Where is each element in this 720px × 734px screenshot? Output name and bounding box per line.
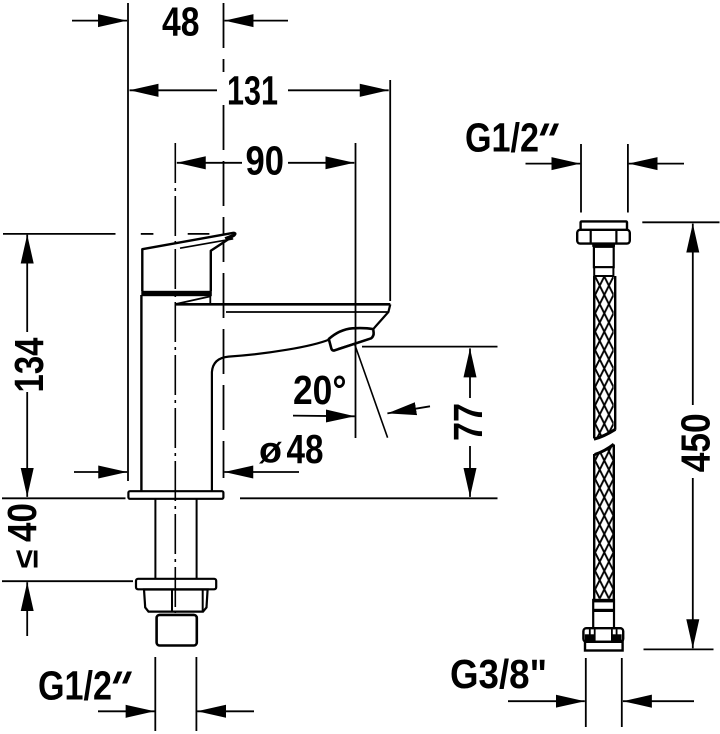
lever tip fill	[225, 233, 237, 242]
label G1/2 (faucet shank)	[38, 663, 132, 709]
svg-text:G1/2: G1/2	[38, 663, 112, 709]
svg-text:48: 48	[287, 426, 324, 472]
dimension 450	[673, 224, 719, 649]
svg-text:≤: ≤	[8, 550, 46, 569]
angle 20 deg line	[354, 342, 388, 438]
dimension G3/8: arrows	[508, 700, 585, 702]
threaded shank sides	[154, 499, 156, 579]
aerator face line	[338, 339, 370, 349]
projection lines shank	[154, 657, 156, 731]
extension line hose bottom (y=649)	[644, 648, 714, 650]
cartridge cap shoulder	[175, 296, 211, 304]
riser left edge	[140, 295, 142, 491]
hose upper edges	[593, 276, 595, 438]
spout deck right edge + chamfer	[373, 304, 390, 329]
svg-text:77: 77	[445, 403, 491, 441]
hose nipple	[594, 247, 614, 267]
lever bottom gap (black bar)	[141, 291, 212, 296]
tail pipe	[157, 615, 197, 646]
extension line spout end (x=390)	[389, 80, 391, 301]
svg-text:G3/8": G3/8"	[450, 651, 547, 697]
svg-text:131: 131	[227, 68, 278, 114]
projection lines G3/8	[585, 658, 587, 727]
dimension G1/2 hose nut: arrows	[526, 163, 581, 165]
lever inner edge line	[180, 239, 233, 248]
hose lower braid	[595, 447, 613, 599]
under-nut lip	[592, 244, 615, 247]
dimension G1/2 shank: arrows	[98, 710, 155, 712]
svg-text:450: 450	[673, 413, 719, 472]
svg-text:134: 134	[6, 337, 52, 392]
svg-text:ø: ø	[259, 430, 282, 471]
mounting plane line (y=498)	[2, 497, 126, 499]
hose ferrule bands	[593, 599, 614, 603]
dimension 134	[6, 235, 52, 497]
label G1/2 (hose top)	[465, 115, 559, 161]
dimension 131	[130, 68, 389, 114]
dimension 77	[445, 348, 491, 497]
hose break lower cut	[595, 444, 614, 454]
svg-text:20°: 20°	[293, 367, 347, 413]
centerline of faucet body (dash-dot)	[174, 143, 176, 613]
hose break upper cut	[594, 429, 616, 439]
hose top cap	[581, 221, 627, 230]
hose nipple groove	[594, 267, 613, 276]
hose lower edges	[593, 454, 595, 600]
base flange	[128, 491, 223, 499]
svg-text:90: 90	[246, 138, 285, 184]
extension line outlet level (y=346.6)	[362, 346, 498, 348]
extension line dashed (x=223.5, base diameter right)	[223, 3, 225, 72]
dimension le 40	[0, 503, 46, 636]
spout deck inner line	[226, 311, 388, 313]
dimension dia 48	[74, 426, 324, 472]
spout underside curve into riser	[212, 340, 329, 491]
extension line outlet axis (x=355.5)	[355, 143, 357, 438]
hose bottom nut	[583, 628, 623, 642]
hose upper braid	[595, 277, 614, 439]
extension line hose top (y=222)	[642, 221, 719, 223]
hose bottom ring	[585, 642, 623, 651]
hex nut	[144, 590, 208, 612]
deck bottom line (y=581)	[2, 580, 133, 582]
svg-text:40: 40	[0, 503, 45, 542]
hose top hex nut	[577, 230, 630, 244]
aerator (outlet)	[329, 328, 374, 351]
extension line left (x=128, base diameter left)	[127, 3, 129, 481]
svg-text:48: 48	[162, 0, 200, 45]
extension line lever top (y=234)	[3, 233, 116, 235]
dimension 48	[72, 0, 288, 45]
angle 20 deg arrows	[293, 415, 355, 418]
spout deck top	[175, 303, 390, 306]
svg-text:G1/2: G1/2	[465, 115, 539, 161]
dimension 90	[177, 138, 354, 184]
lower washer flange	[136, 579, 216, 590]
dimension G1/2 hose nut: extension lines	[580, 144, 582, 213]
faucet lever	[142, 233, 235, 291]
